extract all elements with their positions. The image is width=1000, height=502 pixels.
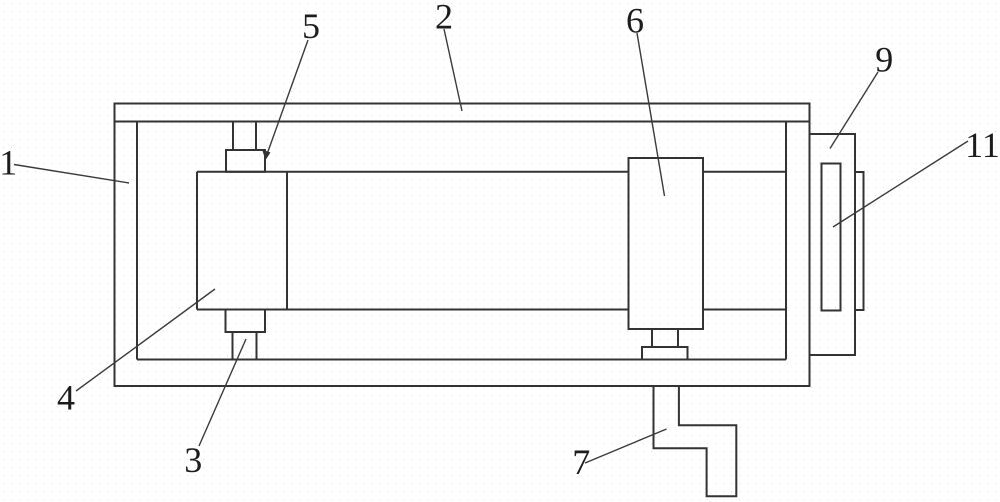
leader line 2 <box>444 29 462 111</box>
roller 6 (right drum) <box>629 158 704 329</box>
leader line 11 <box>833 141 968 227</box>
inner bottom line <box>137 359 786 361</box>
svg-text:2: 2 <box>435 0 453 37</box>
svg-text:11: 11 <box>965 125 1000 165</box>
svg-text:3: 3 <box>184 440 202 480</box>
roller 6 stem <box>652 329 678 347</box>
side unit 9 <box>810 134 856 355</box>
outer housing box 1 <box>115 104 810 387</box>
belt bottom line <box>197 309 786 311</box>
svg-text:9: 9 <box>875 40 893 80</box>
side unit back plate <box>855 172 864 310</box>
leader line 7 <box>585 429 667 463</box>
svg-text:6: 6 <box>626 1 644 41</box>
leader line 6 <box>637 33 665 196</box>
inner left wall <box>136 122 138 360</box>
roller 6 pedestal <box>642 347 688 360</box>
slot 11 <box>822 164 841 311</box>
top stem <box>233 122 256 151</box>
leader line 3 <box>199 339 246 446</box>
svg-text:1: 1 <box>0 143 17 183</box>
belt top line <box>197 171 786 173</box>
leader line 4 <box>76 289 215 391</box>
arrowhead of leader 5 <box>262 150 271 161</box>
leader line 1 <box>14 165 129 184</box>
svg-text:5: 5 <box>302 6 320 46</box>
bottom bearing block (below roller 4) <box>226 310 266 333</box>
inner right wall <box>785 122 787 360</box>
top bearing block 5 <box>226 150 265 172</box>
svg-text:7: 7 <box>572 442 590 482</box>
top lid inner line 2 <box>115 121 810 123</box>
leader line 9 <box>830 72 878 149</box>
leader line 5 <box>266 40 308 157</box>
roller 4 (left drum) <box>197 172 287 310</box>
bottom stem 3 <box>233 332 257 360</box>
outlet pipe 7 <box>654 386 737 496</box>
svg-text:4: 4 <box>57 378 75 418</box>
